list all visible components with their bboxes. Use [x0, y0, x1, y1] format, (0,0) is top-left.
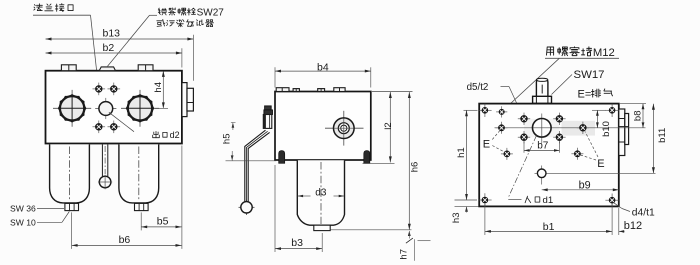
middle view: bowl bottom plug — [314, 225, 330, 230]
leader from SW27 label to center top plug — [108, 15, 158, 66]
left view: right filter bowl — [119, 144, 159, 203]
right view: left/right E holes — [496, 122, 590, 160]
labels SW 36 / SW 10 with leaders — [10, 203, 69, 227]
svg-text:M12: M12 — [593, 47, 615, 59]
right view: SW17 plug on top — [533, 78, 552, 103]
svg-text:h3: h3 — [451, 213, 462, 224]
left view: top tab right (hex head) — [138, 65, 153, 71]
right view: corner mounting bolts — [478, 104, 619, 207]
extension lines for b13/b2 — [182, 35, 194, 81]
label E=排气 — [578, 88, 613, 100]
left view: top tab left (hex head) — [61, 65, 76, 71]
svg-text:d5/t2: d5/t2 — [467, 82, 489, 93]
dimension b3 — [275, 165, 322, 252]
label 用螺塞堵M12 — [545, 47, 619, 59]
dimension b13 — [46, 28, 194, 41]
right view: four clamp bolts — [518, 113, 566, 144]
left view: right side flange (two steps) — [182, 83, 194, 117]
right view: top-left small hole — [496, 111, 507, 113]
right view: bottom port hole — [535, 166, 656, 185]
label SW17 with leader — [552, 69, 605, 95]
left view: left filter bowl — [50, 144, 90, 203]
svg-text:d2: d2 — [170, 130, 180, 140]
svg-text:b8: b8 — [632, 111, 643, 122]
middle view: changeover handle pivot — [263, 106, 272, 128]
dimension b9 — [542, 180, 619, 192]
dimension b4 — [275, 61, 371, 73]
svg-text:b10: b10 — [601, 121, 612, 137]
left view: right hex plug — [121, 90, 159, 127]
svg-text:h5: h5 — [221, 134, 232, 145]
middle view: filter bowl — [297, 160, 344, 225]
svg-text:h7: h7 — [399, 249, 410, 260]
label E (right) with dashed leaders — [581, 132, 605, 170]
label E (left) with dashed leaders — [483, 131, 504, 152]
svg-text:d4/t1: d4/t1 — [632, 207, 655, 218]
label: flange-port text 法兰接口 — [33, 4, 91, 16]
middle view: top tabs — [276, 88, 345, 92]
dimension h4 — [153, 71, 168, 109]
dimension b5 — [141, 216, 181, 229]
middle view: body (side) — [275, 92, 371, 161]
dimension d3 — [298, 187, 344, 198]
dimension l2 — [363, 92, 395, 163]
svg-text:h6: h6 — [409, 162, 420, 173]
svg-text:h1: h1 — [456, 147, 467, 158]
left view: filter block body — [46, 71, 182, 144]
svg-text:SW 36: SW 36 — [10, 203, 36, 213]
right view: centerline row — [495, 127, 646, 129]
dimension b10 — [592, 110, 612, 137]
right view: central inlet circle d1 — [533, 114, 552, 144]
svg-text:SW17: SW17 — [574, 69, 605, 81]
label 入口d1 with dash-dot leader — [508, 136, 553, 207]
extension lines for b5/b6 — [72, 146, 182, 249]
dimension h5 — [221, 122, 276, 160]
left view: left bowl drain plug SW36/SW10 — [65, 203, 79, 210]
leader from flange-port label to top-left bolt — [91, 15, 99, 86]
dimension b12 — [612, 204, 642, 235]
label 出口d2 with leader — [109, 112, 180, 140]
right view: side flange (right edge) — [619, 109, 629, 156]
svg-text:b4: b4 — [317, 61, 329, 73]
svg-text:E: E — [483, 139, 490, 151]
svg-text:SW 10: SW 10 — [10, 218, 36, 228]
dimension b2 — [46, 42, 182, 55]
label d5/t2 with leader — [467, 82, 523, 117]
dimension b7 — [524, 141, 559, 153]
svg-text:b2: b2 — [103, 42, 115, 54]
svg-text:h4: h4 — [153, 82, 164, 93]
dimension b11 — [652, 104, 668, 174]
middle view: handle arm — [245, 130, 270, 202]
dimension b8 — [620, 104, 646, 128]
svg-text:l2: l2 — [383, 122, 394, 129]
middle view: handle ball knob — [239, 200, 255, 215]
svg-text:b9: b9 — [579, 180, 591, 192]
dimension h6 — [331, 92, 421, 230]
middle view: indicator boss circles — [325, 111, 364, 146]
dimension h7 — [399, 231, 431, 261]
svg-text:b1: b1 — [543, 221, 555, 233]
svg-text:b11: b11 — [657, 128, 668, 143]
svg-text:E: E — [597, 158, 604, 170]
dimension h1 — [455, 110, 478, 200]
svg-text:b6: b6 — [119, 234, 131, 246]
left view: center drain tube and port circle — [98, 144, 112, 189]
dimension h3 — [451, 206, 479, 223]
right view: shaded slot — [562, 121, 596, 136]
dimension b1 — [485, 204, 612, 235]
svg-text:SW27: SW27 — [197, 7, 225, 18]
label d4/t1 with leader — [614, 203, 655, 219]
label: locking bolt SW27 / contamination indicator — [157, 7, 224, 27]
svg-text:E=: E= — [578, 88, 592, 100]
right view: block body (top view) — [479, 104, 619, 207]
svg-text:b13: b13 — [103, 28, 121, 40]
svg-text:b3: b3 — [291, 237, 303, 249]
dimension b6 — [72, 234, 182, 247]
left view: four small bolts — [93, 83, 121, 134]
svg-text:b7: b7 — [537, 141, 549, 152]
left view: left hex plug — [53, 90, 91, 127]
svg-text:d1: d1 — [543, 195, 554, 206]
middle view: bottom clamp bolts — [279, 151, 370, 164]
left view: right bowl drain plug — [135, 203, 149, 210]
left view: top center boss SW27 — [99, 67, 115, 71]
svg-text:b12: b12 — [624, 220, 642, 232]
leader from M12 label to hole — [503, 58, 560, 111]
svg-text:b5: b5 — [157, 216, 169, 228]
extension lines for b4 — [275, 67, 371, 87]
left view: center port circle — [95, 108, 116, 110]
svg-text:d3: d3 — [315, 187, 327, 198]
